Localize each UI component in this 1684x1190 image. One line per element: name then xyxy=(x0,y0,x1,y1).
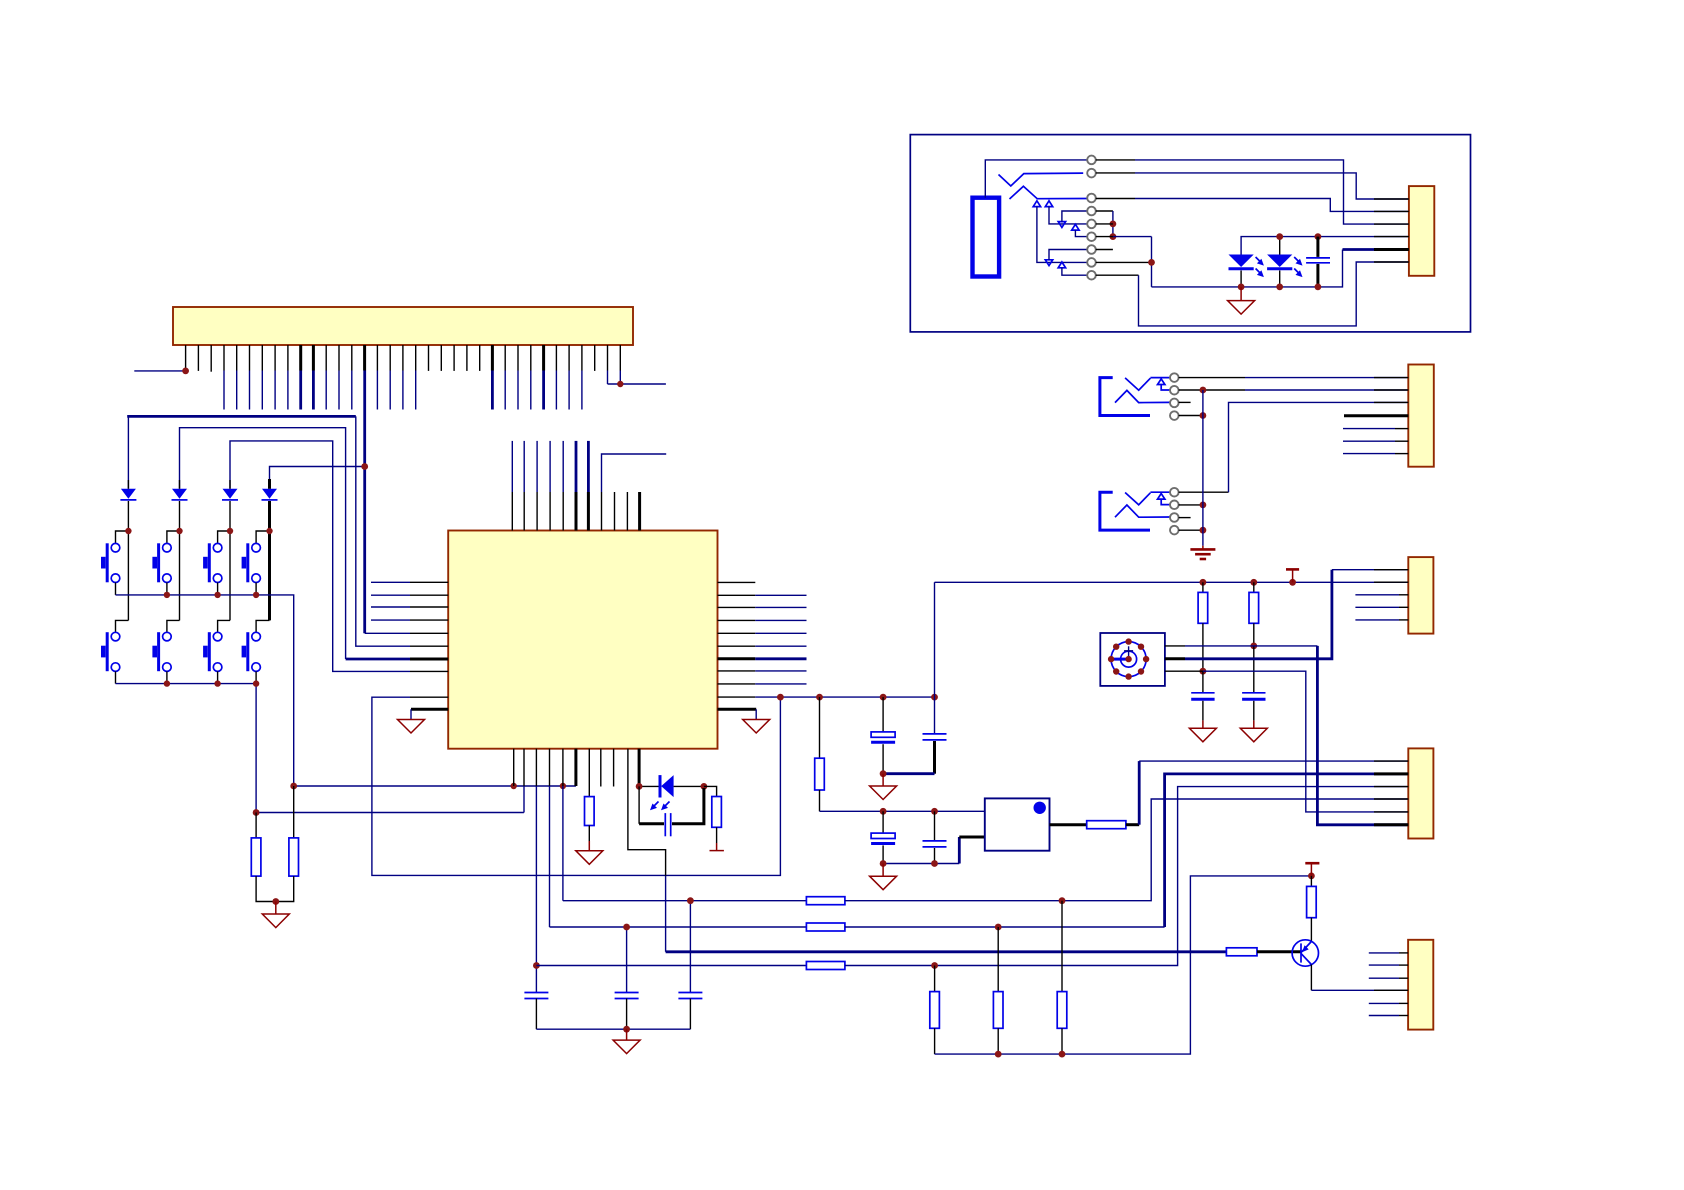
CN2 stub pin y=428.6 xyxy=(1343,428,1408,430)
wire LED cathode rail to CNH pin5 xyxy=(1152,250,1409,287)
J3 switch arrow A1 (to contact 8) xyxy=(1033,201,1087,263)
CN1 pin 23 xyxy=(466,345,468,371)
MCU right pin y=646.2 xyxy=(718,645,807,647)
MCU right pin y=658.8 (thick) xyxy=(718,657,807,660)
CN1 pin 30 xyxy=(555,345,557,410)
MCU left bus pin y=633.3 xyxy=(410,632,448,634)
junction C1 bottom xyxy=(880,770,887,777)
wire J3 c8 xyxy=(1096,261,1152,263)
CN1 pin 22 xyxy=(453,345,455,371)
capacitor C10 below R1 xyxy=(1191,671,1214,728)
MCU bottom stub pin x=600.8 xyxy=(600,749,602,787)
CN1 pin 24 xyxy=(479,345,481,371)
junction row A / R14 xyxy=(1059,897,1066,904)
junction J2 sleeve xyxy=(1200,527,1207,534)
diode D4 xyxy=(262,489,278,500)
junction C3 top xyxy=(880,808,887,815)
resistor R8 xyxy=(585,797,595,851)
junction C9 bottom xyxy=(1315,284,1322,291)
MCU top pin x=550.1 xyxy=(549,441,551,531)
resistor R6 xyxy=(1226,948,1257,956)
junction rail R13 xyxy=(995,1051,1002,1058)
pushbutton S7 xyxy=(203,632,222,683)
junction LED2 cathode xyxy=(1276,284,1283,291)
MCU left bus pin y=659.0 xyxy=(346,658,449,661)
wire +3V rail into regulator xyxy=(820,810,985,812)
junction ROW1 crossing xyxy=(560,783,566,789)
ground G6 xyxy=(613,1040,640,1054)
wire J3 c6 to LED net xyxy=(1096,237,1152,287)
wire J3 c1 to CNH pin3 xyxy=(1096,160,1409,224)
wire transistor base net xyxy=(666,950,1227,953)
MCU right VCC pin net xyxy=(718,696,935,698)
CN1 pin 9 xyxy=(287,345,289,410)
MCU top pin x=537.1 xyxy=(536,441,538,531)
CN1 pin 32 xyxy=(581,345,583,410)
capacitor C6 xyxy=(626,927,628,993)
junction column 1 / button row 1 xyxy=(125,528,131,534)
junction R10/R11 ground node xyxy=(272,898,279,905)
ground G2 xyxy=(870,786,897,800)
CN1 pin 35 xyxy=(619,345,621,384)
junction R1 top xyxy=(1200,579,1207,586)
capacitor C2 xyxy=(934,582,936,734)
MCU left GND pin xyxy=(411,709,448,719)
connector CN5 xyxy=(1408,940,1433,1030)
wire encoder pin A to CN4 pin6 xyxy=(1165,646,1408,825)
MCU right pin y=620.4 xyxy=(718,619,807,621)
wire J3 c7 stub xyxy=(1096,249,1113,251)
resistor R10 xyxy=(251,813,275,902)
resistor R11 xyxy=(276,786,299,902)
capacitor C7 xyxy=(689,901,691,993)
junction R1 bottom / encoder A xyxy=(1200,668,1207,675)
CN5 stub pin y=1003.4 xyxy=(1369,1002,1408,1004)
junction row3 top xyxy=(533,962,540,969)
junction c5 xyxy=(1110,221,1117,228)
capacitor C1 xyxy=(882,697,884,732)
capacitor C4 xyxy=(923,841,947,847)
J3 ring lever xyxy=(1010,186,1088,199)
junction row B / R13 xyxy=(995,924,1002,931)
CN1 pin 12 xyxy=(325,345,327,410)
resistor R5C xyxy=(806,962,845,970)
headphone sub-circuit bounding box xyxy=(910,135,1470,332)
ground below LED1 xyxy=(1228,287,1255,314)
power T symbol T1 xyxy=(1286,569,1299,582)
pushbutton S3 xyxy=(203,543,222,595)
CN5 stub pin y=965.1 xyxy=(1369,964,1408,966)
resistor R4 xyxy=(1087,821,1126,829)
CN1 pin 21 xyxy=(440,345,442,371)
junction C4 bottom xyxy=(931,860,938,867)
wire from CN1 pins 34/35 going right xyxy=(608,383,666,385)
wire J1 ring to CN2 pin2 xyxy=(1179,389,1409,391)
phone jack J2 xyxy=(1100,488,1179,534)
capacitor C6 xyxy=(615,993,639,999)
junction ROW1/MCU pin xyxy=(511,783,517,789)
wire J3 c9 to CNH pin6 xyxy=(1096,262,1409,326)
CN1 pin 5 xyxy=(236,345,238,410)
pushbutton S8 xyxy=(242,632,261,683)
junction LED2 anode xyxy=(1276,233,1283,240)
CN1 pin 1 xyxy=(185,345,187,371)
J3 switch arrow A6 (to contact 9) xyxy=(1058,262,1087,275)
junction caps rail xyxy=(623,1026,630,1033)
wire jack ground bus xyxy=(1202,390,1204,546)
wire +V rail (to CN3 pin2) xyxy=(935,581,1409,583)
wire bus column 1 (diode D1 to MCU) xyxy=(127,416,410,646)
CN1 pin 27 xyxy=(517,345,519,410)
wire Q1 collector to CN5 pin4 xyxy=(1311,965,1408,991)
CN1 pin 8 xyxy=(274,345,276,410)
wire button row 2 rail xyxy=(116,684,257,813)
CN1 pin 16 xyxy=(376,345,378,410)
CN2 stub pin y=441.2 xyxy=(1343,440,1408,442)
wire bus column 3 (diode D3 to MCU) xyxy=(230,441,410,672)
wire column 2 to buttons xyxy=(167,480,180,632)
wire J1 sleeve to ground bus xyxy=(1179,415,1203,417)
resistor R5B xyxy=(806,923,845,931)
wire row net B (MCU to CN4 pin2) xyxy=(550,926,807,928)
wire J2 sleeve to ground bus xyxy=(1179,529,1203,531)
wire encoder pin C to CN4 pin5 xyxy=(1165,671,1408,812)
wire bus column 4 (diode D4 to vertical bus) xyxy=(270,467,365,489)
resistor R2 xyxy=(1249,582,1259,646)
junction column 2 / button row 1 xyxy=(176,528,182,534)
stereo jack J3 body xyxy=(973,198,1000,277)
MCU top pin x=576.0 xyxy=(575,441,578,531)
junction J1 sleeve xyxy=(1200,412,1207,419)
wire J3 c3 to CNH pin2 xyxy=(1096,199,1409,212)
CN1 pin 13 xyxy=(338,345,340,410)
junction row C / R12 xyxy=(931,962,938,969)
CN1 pin 4 xyxy=(223,345,225,410)
capacitor C5 xyxy=(524,993,548,999)
stub J1 contact 3 xyxy=(1179,401,1191,403)
junction C4 top xyxy=(931,808,938,815)
MCU top pin x=524.2 xyxy=(523,441,525,531)
junction photodiode cathode node xyxy=(636,783,643,790)
MCU top stub pin x=627.4 xyxy=(626,492,628,531)
CN1 pin 33 xyxy=(594,345,596,371)
wire row net C (MCU to CN4 pin3) xyxy=(536,965,806,967)
junction bus A / column 4 xyxy=(361,463,368,470)
CN1 pin 7 xyxy=(261,345,263,410)
MCU left pin y=607.0 xyxy=(371,606,448,608)
MCU bottom pin x=549.5 (to row2) xyxy=(549,749,551,927)
wire bottom caps ground rail xyxy=(536,1028,690,1030)
rotary encoder SW1 xyxy=(1100,633,1165,686)
CN1 pin 2 xyxy=(197,345,199,371)
MCU top pin x=601.5 with L wire xyxy=(602,454,667,531)
junction photodiode anode node xyxy=(701,783,708,790)
wire bus A vertical (CN1 pin15 down to MCU) xyxy=(365,371,410,634)
ground below R10/R11 xyxy=(262,902,289,928)
photodiode D5 xyxy=(639,775,704,797)
CN1 pin 25 xyxy=(491,345,494,410)
CN1 pin 29 xyxy=(542,345,545,410)
junction R2 bottom / encoder C xyxy=(1250,643,1257,650)
diode D1 xyxy=(120,489,136,500)
wire C1/C2 bottom node xyxy=(883,772,934,775)
CN1 pin 3 xyxy=(210,345,212,372)
connector CNH (headphone) xyxy=(1409,186,1434,276)
ground bar below R9 xyxy=(710,850,724,852)
pushbutton S2 xyxy=(152,543,171,595)
wire LED anode rail to CNH pin4 xyxy=(1241,237,1409,255)
junction row B / C6 xyxy=(623,924,630,931)
CN1 pin 15 xyxy=(363,345,366,371)
junction c6 xyxy=(1110,233,1117,240)
wire button row 1 rail xyxy=(116,595,294,786)
ground below caps rail xyxy=(626,1029,628,1040)
regulator output wire xyxy=(1050,823,1087,826)
capacitor C3 xyxy=(871,833,895,843)
J3 tip lever xyxy=(999,173,1084,186)
connector CN2 xyxy=(1408,365,1434,467)
capacitor C11 below R2 xyxy=(1242,646,1265,728)
junction at CN1 pin 35 xyxy=(617,381,623,387)
CN1 pin 14 xyxy=(351,345,353,410)
LED LED1 xyxy=(1229,255,1264,287)
capacitor C8 (across photodiode) xyxy=(639,786,704,836)
MCU right pin y=607.4 xyxy=(718,606,807,608)
junction column 3 / button row 1 xyxy=(227,528,233,534)
CN1 pin 6 xyxy=(249,345,251,410)
phone jack J1 xyxy=(1100,373,1179,420)
wire column 3 to buttons xyxy=(218,480,230,632)
junction J1 ring / ground bus xyxy=(1200,387,1207,394)
MCU left pin y=697.2 and loop wire around bottom xyxy=(372,697,781,875)
pushbutton S4 xyxy=(242,543,261,595)
resistor R1 xyxy=(1198,582,1208,671)
CN3 stub pin y=594.8 xyxy=(1355,594,1408,596)
ground below C1/C2 xyxy=(882,774,884,786)
CN1 pin 19 xyxy=(415,345,417,410)
LED LED2 xyxy=(1267,255,1302,287)
capacitor C1 xyxy=(871,732,895,742)
ground G3 xyxy=(870,876,897,890)
MCU left bus pin y=646.2 xyxy=(410,645,448,647)
resistor R5 xyxy=(806,897,845,905)
transistor Q1 xyxy=(1292,940,1318,966)
junction ROW2/R10 xyxy=(253,809,260,816)
capacitor C4 xyxy=(934,811,936,841)
resistor R7 xyxy=(1307,876,1317,942)
wire bus column 2 (diode D2 to MCU) xyxy=(180,428,346,659)
wire J3 c5 stub xyxy=(1096,223,1113,225)
J3 switch arrow A5 (to contact 7) xyxy=(1045,250,1087,266)
connector CN4 xyxy=(1408,748,1433,838)
CN3 stub pin y=619.9 xyxy=(1355,619,1408,621)
junctions on VCC net xyxy=(777,694,938,701)
MCU U1 (main IC) xyxy=(448,531,717,749)
wire C3/C4 bottom node to regulator GND xyxy=(883,837,985,864)
junction at CN1 pin 1 xyxy=(182,368,189,375)
CN1 pin 18 xyxy=(402,345,404,410)
ground G8 xyxy=(1240,728,1267,742)
CN2 stub pin y=453.6 xyxy=(1343,453,1408,455)
CN1 pin 11 xyxy=(312,345,315,410)
MCU top stub pin x=639.6 xyxy=(638,492,641,531)
MCU right pin y=582.4 xyxy=(718,581,756,583)
MCU bottom pin x=524.0 xyxy=(523,749,525,813)
wire column 1 to buttons xyxy=(116,480,129,632)
capacitor C2 xyxy=(923,734,947,740)
encoder contact dots xyxy=(1108,638,1149,679)
wire from CN1 pin 1 going left xyxy=(134,370,185,372)
wire column 4 to buttons xyxy=(256,479,269,632)
wire J3 sleeve to contact 1 xyxy=(985,160,1087,198)
connector CN1 (top 35-pin header) xyxy=(173,307,633,345)
wire J3 c2 to CNH pin1 xyxy=(1096,173,1409,199)
wire encoder pin B to CN3 pin1 xyxy=(1165,570,1408,659)
CN1 pin 31 xyxy=(568,345,570,410)
CN1 pin 17 xyxy=(389,345,391,410)
junction ROW1/R11 xyxy=(290,783,297,790)
CN5 stub pin y=1015.5 xyxy=(1369,1015,1408,1017)
pushbutton S6 xyxy=(152,632,171,683)
wire J2 tip to CN2 pin3 xyxy=(1179,402,1409,492)
diode D3 xyxy=(222,489,238,500)
J3 switch arrow A3 (to contact 4) xyxy=(1058,211,1087,227)
junction T1 xyxy=(1289,579,1296,586)
MCU bottom pin x=562.9 (to row1) xyxy=(562,749,564,901)
J3 switch arrow A4 (to contact 6) xyxy=(1072,224,1088,236)
CN1 pin 10 xyxy=(299,345,302,410)
capacitor C7 xyxy=(678,993,702,999)
resistor R13 xyxy=(993,927,1003,1054)
MCU right GND pin xyxy=(718,709,757,719)
MCU bottom stub pin x=613.6 xyxy=(613,749,615,787)
MCU bottom pin x=575.9 (thick) xyxy=(574,749,577,786)
junction J2 ring xyxy=(1200,502,1207,509)
junction LED1 cathode xyxy=(1238,284,1245,291)
MCU right pin y=670.9 xyxy=(718,670,807,672)
CN1 pin 34 xyxy=(607,345,609,384)
MCU right pin y=683.9 xyxy=(718,683,807,685)
MCU right pin y=633.3 xyxy=(718,632,807,634)
junction R2 top xyxy=(1250,579,1257,586)
MCU top pin x=588.4 xyxy=(587,441,590,531)
CN5 stub pin y=978.2 xyxy=(1369,977,1408,979)
MCU bottom pin x=589.3 to resistor R8 xyxy=(588,749,590,797)
resistor R3 xyxy=(815,697,825,811)
wire R4 to CN4 pin1 xyxy=(1126,761,1408,825)
MCU left bus pin y=671.4 xyxy=(410,670,448,672)
MCU left pin y=582.3 xyxy=(371,581,448,583)
junction C3 bottom xyxy=(880,860,887,867)
wire J2 ring to ground bus xyxy=(1179,504,1203,506)
resistor R9 xyxy=(704,786,721,850)
wire resistor bottom rail to T power xyxy=(935,876,1312,1054)
earth ground symbol xyxy=(1190,546,1215,559)
junction C9 top xyxy=(1315,233,1322,240)
CN1 pin 28 xyxy=(530,345,532,410)
MCU left pin y=595.2 xyxy=(371,594,448,596)
CN5 stub pin y=952.9 xyxy=(1369,952,1408,954)
junctions on row 2 rail xyxy=(164,680,260,686)
stub J2 contact 3 xyxy=(1179,517,1191,519)
ground left of MCU xyxy=(398,720,425,734)
junctions on row 1 rail xyxy=(164,592,260,598)
ground right of MCU xyxy=(743,720,770,734)
ground below R8 xyxy=(576,851,603,865)
MCU right pin y=595.3 xyxy=(718,594,807,596)
wire J1 tip to CN2 pin1 xyxy=(1179,377,1409,379)
voltage regulator U2 xyxy=(985,798,1050,850)
diode D2 xyxy=(172,489,188,500)
junction row A / C7 xyxy=(687,897,694,904)
resistor R12 xyxy=(930,966,940,1055)
MCU top pin x=563.2 xyxy=(562,441,564,531)
ground G7 xyxy=(1189,728,1216,742)
capacitor C3 xyxy=(882,811,884,833)
MCU top pin x=512.3 xyxy=(511,441,513,531)
MCU bottom pin x=536.4 (to row3 and C5) xyxy=(535,749,537,993)
pushbutton S1 xyxy=(101,543,120,595)
MCU bottom pin x=513.7 xyxy=(513,749,515,786)
CN1 pin 20 xyxy=(428,345,430,371)
wire net ROW1 (buttons to MCU bottom pin) xyxy=(294,785,576,787)
pushbutton S5 xyxy=(101,632,120,683)
connector pin overlays (black pin ends) xyxy=(1374,199,1409,990)
CN1 pin 26 xyxy=(504,345,506,410)
junction c8/c6 xyxy=(1148,259,1155,266)
MCU bottom pin x=639.1 (thick, to photodiode) xyxy=(638,749,641,787)
MCU left pin y=620.1 xyxy=(371,619,448,621)
wire net ROW2 (buttons to MCU bottom pin) xyxy=(256,812,524,814)
MCU top stub pin x=614.5 xyxy=(614,492,616,531)
junction rail R14 xyxy=(1059,1051,1066,1058)
junction column 4 / button row 1 xyxy=(266,528,272,534)
ground below C3 xyxy=(882,864,884,877)
CN3 stub pin y=607.3 xyxy=(1355,606,1408,608)
junction T power node xyxy=(1308,873,1315,880)
capacitor C9 xyxy=(1306,237,1330,287)
wire row net A (MCU to CN4 pin4) xyxy=(563,900,807,902)
CN2 pin4 thick stub xyxy=(1344,414,1408,417)
resistor R14 xyxy=(1057,901,1067,1054)
connector CN3 xyxy=(1408,557,1433,634)
J3 contact circles xyxy=(1087,156,1096,280)
photodiode arrows xyxy=(650,802,670,811)
MCU bottom pin x=627.9 (to transistor base line) xyxy=(628,749,666,952)
wire J3 c4/c5/c6 tie xyxy=(1096,211,1113,237)
J3 switch arrow A2 (to contact 5) xyxy=(1045,201,1087,224)
power T symbol T2 xyxy=(1305,863,1319,876)
wire LED2 anode lead xyxy=(1279,237,1281,255)
